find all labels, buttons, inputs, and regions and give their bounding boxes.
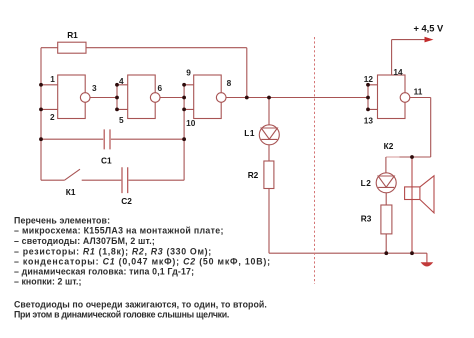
svg-text:– динамическая головка: типа 0: – динамическая головка: типа 0,1 Гд-17;: [14, 267, 194, 277]
svg-text:1: 1: [50, 74, 55, 84]
svg-text:При этом в динамической головк: При этом в динамической головке слышны щ…: [14, 310, 229, 320]
svg-text:R2: R2: [248, 170, 259, 180]
svg-text:К2: К2: [384, 141, 394, 151]
svg-text:– конденсаторы: С1 (0,047 мкФ): – конденсаторы: С1 (0,047 мкФ); С2 (50 м…: [14, 257, 271, 267]
svg-text:6: 6: [157, 83, 162, 93]
svg-text:9: 9: [186, 67, 191, 77]
svg-text:– кнопки: 2 шт.;: – кнопки: 2 шт.;: [14, 277, 81, 287]
svg-text:C2: C2: [121, 196, 132, 206]
svg-text:8: 8: [227, 78, 232, 88]
svg-text:– резисторы: R1 (1,8к); R2, R3: – резисторы: R1 (1,8к); R2, R3 (330 Ом);: [14, 246, 212, 256]
svg-text:Перечень элементов:: Перечень элементов:: [14, 216, 110, 226]
svg-text:11: 11: [414, 87, 423, 97]
svg-text:C1: C1: [101, 156, 112, 166]
svg-text:4: 4: [119, 76, 124, 86]
svg-text:L2: L2: [361, 178, 372, 188]
svg-text:2: 2: [50, 112, 55, 122]
svg-text:3: 3: [92, 83, 97, 93]
svg-text:13: 13: [364, 116, 374, 126]
svg-text:14: 14: [393, 67, 403, 77]
svg-text:10: 10: [186, 118, 196, 128]
svg-text:– светодиоды: АЛ307БМ, 2 шт.;: – светодиоды: АЛ307БМ, 2 шт.;: [14, 236, 155, 246]
svg-text:– микросхема: К155ЛА3 на монта: – микросхема: К155ЛА3 на монтажной плате…: [14, 226, 224, 236]
svg-text:+ 4,5 V: + 4,5 V: [414, 24, 445, 34]
svg-text:5: 5: [119, 115, 124, 125]
svg-text:R3: R3: [361, 214, 372, 224]
svg-text:L1: L1: [244, 128, 255, 138]
svg-text:12: 12: [364, 74, 374, 84]
svg-text:R1: R1: [67, 30, 78, 40]
svg-text:Светодиоды по очереди зажигают: Светодиоды по очереди зажигаются, то оди…: [14, 299, 267, 309]
svg-text:К1: К1: [66, 187, 76, 197]
